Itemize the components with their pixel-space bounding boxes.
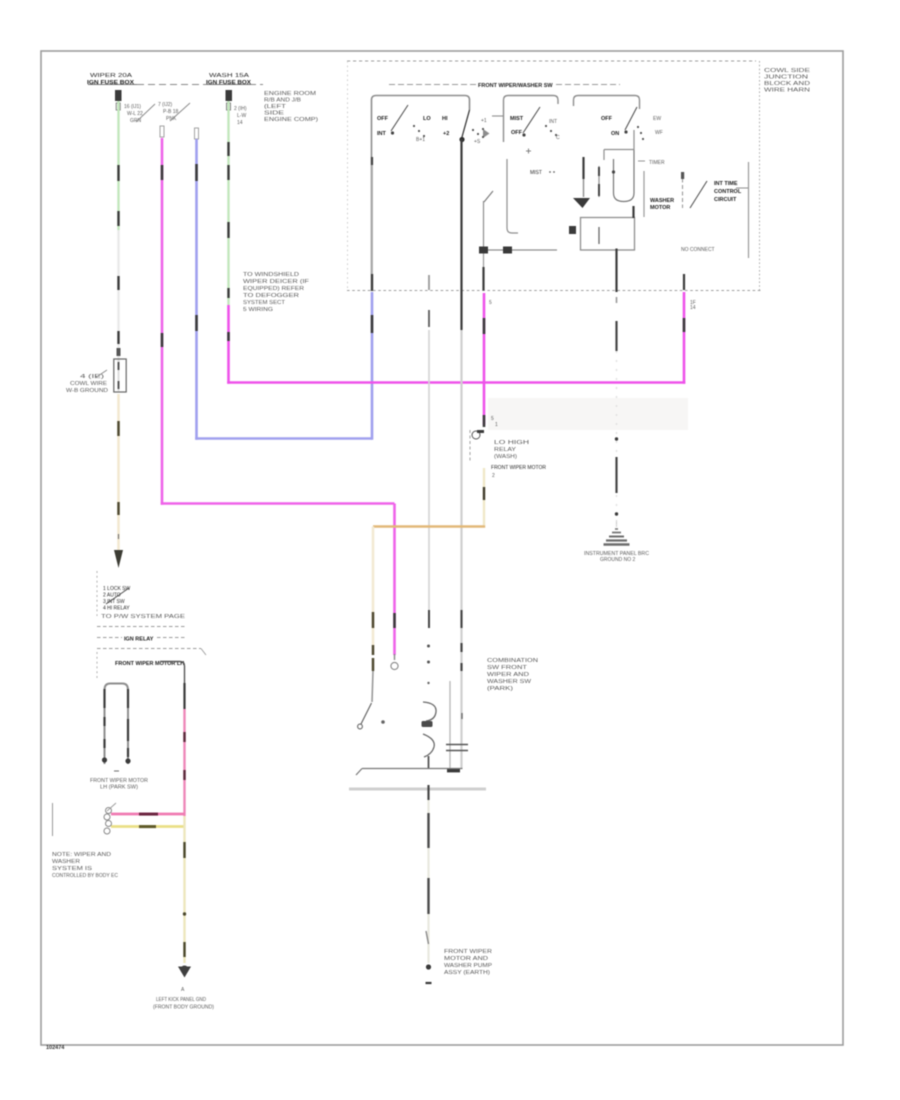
svg-text:PNK: PNK xyxy=(166,116,177,122)
svg-text:1: 1 xyxy=(495,422,498,428)
SW3 output wire xyxy=(604,130,634,160)
SW1 blade xyxy=(391,105,408,135)
wire W2 pink x=162 xyxy=(160,126,164,505)
switch body SW3 rounded box xyxy=(574,96,640,110)
svg-text:5: 5 xyxy=(491,416,494,422)
svg-text:MIST: MIST xyxy=(510,116,524,122)
svg-text:LH (PARK SW): LH (PARK SW) xyxy=(100,785,138,791)
motor label xyxy=(90,778,148,791)
svg-text:CIRCUIT: CIRCUIT xyxy=(714,197,737,203)
svg-text:SYSTEM IS: SYSTEM IS xyxy=(52,866,93,872)
svg-text:WASH 15A: WASH 15A xyxy=(209,73,250,79)
svg-text:COWL WIRE: COWL WIRE xyxy=(70,381,108,387)
SW2 left pin marks xyxy=(481,118,487,138)
svg-text:INT TIME: INT TIME xyxy=(714,181,738,187)
svg-text:COWL SIDE: COWL SIDE xyxy=(764,68,811,74)
label for connector C1 xyxy=(66,370,108,394)
tick to right bus xyxy=(736,187,748,189)
svg-text:WASHER SW: WASHER SW xyxy=(487,679,531,685)
U1 labels xyxy=(491,440,546,479)
svg-text:WIPER DEICER (IF: WIPER DEICER (IF xyxy=(243,279,309,285)
svg-text:5 WIRING: 5 WIRING xyxy=(243,307,273,313)
svg-text:SYSTEM SECT: SYSTEM SECT xyxy=(243,300,285,306)
wire x=461 dark upper xyxy=(460,139,462,610)
svg-text:R/B AND J/B: R/B AND J/B xyxy=(264,98,302,104)
svg-text:WASHER: WASHER xyxy=(52,859,80,865)
SW1 position labels xyxy=(377,116,449,137)
wire W2 drop x=394 xyxy=(391,504,398,670)
MIST wash line label xyxy=(530,170,555,176)
svg-text:FRONT WIPER: FRONT WIPER xyxy=(444,949,493,955)
dashed junction box left border xyxy=(347,61,349,290)
svg-text:102474: 102474 xyxy=(46,1045,65,1051)
motor brush U component xyxy=(102,684,131,765)
ground symbol left xyxy=(178,966,191,994)
dashed separator lines xyxy=(97,627,206,679)
washer feed line x=583 with arrow xyxy=(573,157,590,208)
svg-text:ON: ON xyxy=(611,131,619,137)
parallel line x=450 xyxy=(449,681,451,768)
svg-text:WIPER AND: WIPER AND xyxy=(487,672,530,678)
park switch blade xyxy=(358,703,385,729)
intermittent label dark xyxy=(714,181,742,203)
lower-left dashed connector box xyxy=(97,571,186,620)
svg-text:14: 14 xyxy=(237,120,243,126)
connector tag G3 xyxy=(234,106,247,126)
wire W1b tan below C1 xyxy=(114,394,123,568)
x=461 lower segments xyxy=(460,610,463,768)
svg-text:ENGINE ROOM: ENGINE ROOM xyxy=(264,91,316,97)
svg-text:COMBINATION: COMBINATION xyxy=(487,658,539,664)
fuse F2 symbol xyxy=(226,90,233,110)
bottom bus line 2 wide xyxy=(349,788,486,791)
wire W4 green x=228 xyxy=(227,101,229,305)
svg-text:WIPER 20A: WIPER 20A xyxy=(90,73,133,79)
svg-text:MOTOR AND: MOTOR AND xyxy=(444,956,489,962)
svg-text:IGN RELAY: IGN RELAY xyxy=(124,637,154,643)
svg-text:EQUIPPED) REFER: EQUIPPED) REFER xyxy=(243,286,305,292)
fuse F1 label xyxy=(87,73,134,86)
svg-text:WF: WF xyxy=(655,130,663,136)
interior stub below y=248.5 at x=483.5 xyxy=(483,250,485,267)
svg-text:W-L 22: W-L 22 xyxy=(127,111,143,117)
fuse F1 symbol xyxy=(115,90,122,110)
svg-text:TIMER: TIMER xyxy=(649,160,665,166)
svg-text:SW FRONT: SW FRONT xyxy=(487,665,527,671)
wire W3 riser x=372 xyxy=(371,274,374,440)
switch header label xyxy=(389,83,620,89)
svg-text:+2: +2 xyxy=(443,131,449,137)
svg-text:INT: INT xyxy=(377,131,387,137)
svg-text:NOTE: WIPER AND: NOTE: WIPER AND xyxy=(52,852,112,858)
svg-text:FRONT WIPER MOTOR: FRONT WIPER MOTOR xyxy=(90,778,148,784)
ground label left xyxy=(153,997,214,1011)
small dot near pump xyxy=(569,226,576,234)
pin tick x=682 above box bottom xyxy=(683,274,685,290)
SW2 feed stub xyxy=(492,115,504,117)
svg-text:1 LOCK SW: 1 LOCK SW xyxy=(103,586,131,592)
svg-text:OFF: OFF xyxy=(511,130,523,136)
svg-text:14: 14 xyxy=(690,305,696,311)
svg-text:LO: LO xyxy=(423,116,431,122)
dashed junction box bottom border xyxy=(347,290,763,292)
wire W3 horizontal run y=438.5 xyxy=(195,437,372,440)
switch body SW2 rounded box xyxy=(504,96,559,143)
tan drop x=373 xyxy=(372,527,373,703)
svg-text:INT: INT xyxy=(549,119,557,125)
svg-text:(WASH): (WASH) xyxy=(494,454,517,460)
middle ground dashes x=616 xyxy=(615,297,618,530)
wire W2 horizontal run y=503.5 xyxy=(161,502,395,505)
fuse F2 label xyxy=(206,73,251,86)
svg-text:TO DEFOGGER: TO DEFOGGER xyxy=(243,293,300,299)
wire from dark bar corner to x=184.5 xyxy=(160,662,185,817)
wire W3 blue x=196 xyxy=(195,128,199,440)
interior diagonal at 483 xyxy=(484,191,494,250)
SW3 labels xyxy=(601,116,619,137)
svg-text:OFF: OFF xyxy=(377,116,389,122)
right interior bus x=748.5 xyxy=(748,162,750,258)
faint band xyxy=(488,398,688,430)
wire W4 horizontal magenta y=382.5 xyxy=(227,381,685,384)
svg-text:+1: +1 xyxy=(481,118,487,124)
svg-text:W-B GROUND: W-B GROUND xyxy=(66,388,108,394)
svg-text:LO HIGH: LO HIGH xyxy=(494,440,530,446)
switch body SW1 rounded box xyxy=(372,96,470,275)
wire W4 riser x=686 xyxy=(684,292,696,384)
wire x=429 dashed gray xyxy=(428,275,430,610)
tan horizontal y=526.5 xyxy=(373,525,485,528)
wire x=373 gray between box and blue xyxy=(371,165,373,274)
bottom wire x=428 to ground xyxy=(426,785,432,983)
washer relay U1 xyxy=(470,416,498,462)
svg-text:7 (IJ2): 7 (IJ2) xyxy=(158,102,173,108)
svg-text:2: 2 xyxy=(492,473,495,479)
svg-text:+S: +S xyxy=(474,139,481,145)
SW2 blade xyxy=(522,107,540,137)
SW1 dark tick on left side xyxy=(371,157,373,165)
svg-text:WASHER: WASHER xyxy=(650,198,674,204)
dashed junction box right border xyxy=(759,61,761,290)
svg-text:LEFT KICK PANEL GND: LEFT KICK PANEL GND xyxy=(156,997,206,1003)
svg-text:IGN FUSE BOX: IGN FUSE BOX xyxy=(87,80,134,86)
connector C1 on W1 xyxy=(114,348,126,392)
SW3 blade xyxy=(624,107,637,134)
washer pump box xyxy=(581,218,635,251)
svg-text:B+1: B+1 xyxy=(416,137,425,143)
svg-text:TO P/W SYSTEM PAGE: TO P/W SYSTEM PAGE xyxy=(101,614,186,620)
x=429 lower dark xyxy=(428,610,430,628)
SW2 labels xyxy=(510,116,524,136)
svg-text:EW: EW xyxy=(653,116,661,122)
svg-text:WIRE HARN: WIRE HARN xyxy=(764,88,811,94)
note text block bottom left xyxy=(52,852,118,879)
svg-text:4 (IE): 4 (IE) xyxy=(80,374,105,380)
junction tick at bus line 1 xyxy=(447,769,460,772)
svg-text:FRONT WIPER MOTOR: FRONT WIPER MOTOR xyxy=(491,465,546,471)
washer coil U xyxy=(612,150,634,202)
SW1 contact dots xyxy=(413,125,425,143)
svg-text:JUNCTION: JUNCTION xyxy=(764,75,809,81)
U1 output yellow wire xyxy=(483,468,485,525)
yellow drop wire x=184.5 xyxy=(183,816,186,963)
svg-text:(LEFT: (LEFT xyxy=(264,104,286,110)
svg-text:5: 5 xyxy=(489,300,492,306)
connector bars crossing 450/462 xyxy=(446,745,468,751)
svg-text:2 (IH): 2 (IH) xyxy=(234,106,247,112)
yellow horizontal wire y=826.5 xyxy=(104,821,185,835)
bottom bus line 1 xyxy=(356,769,463,776)
svg-text:L-W: L-W xyxy=(237,113,246,119)
svg-text:P-B 18: P-B 18 xyxy=(163,109,179,115)
svg-text:4 HI RELAY: 4 HI RELAY xyxy=(103,606,130,612)
svg-text:TO WINDSHIELD: TO WINDSHIELD xyxy=(243,272,300,278)
SW2 contact dots xyxy=(545,119,560,141)
interior horizontal y=248.5 xyxy=(483,249,557,251)
interior L line x=507 xyxy=(507,159,518,233)
pump output dark wire x=616 xyxy=(615,249,617,293)
fuse bus line xyxy=(88,84,137,86)
pink horizontal wire y=814 xyxy=(104,803,185,820)
svg-text:MOTOR: MOTOR xyxy=(650,205,670,211)
svg-text:GROUND NO 2: GROUND NO 2 xyxy=(600,557,636,563)
svg-text:ENGINE COMP): ENGINE COMP) xyxy=(264,117,318,123)
small tick below motor xyxy=(114,770,119,772)
wire W4 branch x=484 xyxy=(484,293,492,427)
SW1 right blade to wire xyxy=(459,110,489,145)
dashed junction box top border xyxy=(347,60,756,62)
svg-text:ASSY (EARTH): ASSY (EARTH) xyxy=(444,970,490,976)
svg-text:HI: HI xyxy=(442,116,448,122)
intermittent stub x=682 xyxy=(681,172,684,208)
wire W4 pink lower x=228 xyxy=(227,305,230,384)
svg-text:CONTROLLED BY BODY EC: CONTROLLED BY BODY EC xyxy=(52,873,118,879)
timer label xyxy=(638,160,665,166)
left bracket line xyxy=(52,803,54,836)
SW3 contact dots xyxy=(637,116,663,140)
svg-text:RELAY: RELAY xyxy=(494,447,517,453)
svg-text:(FRONT BODY GROUND): (FRONT BODY GROUND) xyxy=(153,1005,214,1011)
svg-text:WASHER PUMP: WASHER PUMP xyxy=(444,963,493,969)
wire W1 green x=118 xyxy=(117,101,119,362)
bottom wire label xyxy=(444,949,493,976)
component label right of fuse F2 xyxy=(264,91,318,123)
svg-text:MIST: MIST xyxy=(530,170,542,176)
washer pump inlet line x=644 xyxy=(634,171,645,218)
connector tag G1 xyxy=(124,104,155,124)
svg-text:16 (IJ1): 16 (IJ1) xyxy=(124,104,141,110)
connector arcs on x=428 xyxy=(422,645,437,769)
svg-text:BLOCK AND: BLOCK AND xyxy=(764,81,811,87)
svg-text:SIDE: SIDE xyxy=(264,111,285,117)
bottom right short line xyxy=(681,247,715,253)
center label TO WIPER DEICER xyxy=(243,272,309,313)
connector tag G2 xyxy=(158,102,190,122)
svg-text:IGN FUSE BOX: IGN FUSE BOX xyxy=(206,80,251,86)
svg-text:NO CONNECT: NO CONNECT xyxy=(681,247,715,253)
intermittent blade xyxy=(690,181,707,208)
top right block label xyxy=(764,68,811,94)
svg-text:OFF: OFF xyxy=(601,116,613,122)
svg-text:CONTROL: CONTROL xyxy=(714,189,742,195)
SW2 plus mark xyxy=(526,149,531,154)
svg-text:FRONT WIPER/WASHER SW: FRONT WIPER/WASHER SW xyxy=(478,83,553,89)
washer motor label dark xyxy=(650,198,674,211)
ground symbol middle xyxy=(584,529,649,563)
svg-text:C: C xyxy=(556,135,560,141)
combination switch lower label xyxy=(487,658,539,692)
svg-text:(PARK): (PARK) xyxy=(487,686,514,692)
short line x=601 xyxy=(598,166,600,197)
